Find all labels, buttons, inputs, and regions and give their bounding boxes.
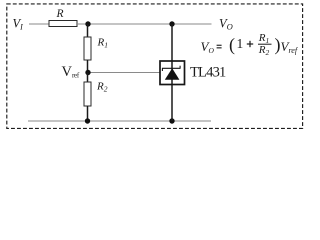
TL431 U1 body box — [160, 61, 185, 85]
node Vref junction dot — [85, 70, 90, 75]
node bottom-right junction dot — [169, 118, 174, 123]
wire R1 to Vref node — [87, 60, 89, 73]
node bottom-left junction dot — [85, 118, 90, 123]
wire node A to node B — [88, 23, 172, 25]
node VI label — [13, 16, 24, 31]
svg-text:R: R — [56, 8, 64, 20]
node VO label — [219, 16, 233, 31]
wire node B down through TL431 to bottom rail — [171, 24, 173, 121]
resistor R — [49, 8, 77, 27]
formula VO = (1 + R1/R2) Vref — [201, 32, 299, 57]
wire VI to R — [29, 23, 49, 25]
wire Vref to R2 — [87, 73, 89, 83]
wire node B to VO terminal — [172, 23, 212, 25]
node B junction dot — [169, 21, 174, 26]
resistor R1 — [84, 37, 108, 60]
wire Vref node to TL431 ref pin — [88, 72, 160, 74]
node A junction dot — [85, 21, 90, 26]
wire R2 to bottom rail — [87, 106, 89, 121]
wire R to node A — [77, 23, 88, 25]
wire node A down to R1 — [87, 24, 89, 37]
resistor R2 — [84, 81, 108, 107]
bottom rail wire — [28, 120, 211, 122]
TL431 anode triangle — [165, 68, 180, 80]
svg-text:1: 1 — [237, 36, 244, 51]
node Vref label — [62, 64, 80, 80]
svg-text:(: ( — [229, 35, 235, 56]
TL431 cathode bar — [162, 66, 181, 71]
TL431 reference designator label — [190, 65, 226, 81]
svg-text:TL431: TL431 — [190, 65, 226, 81]
